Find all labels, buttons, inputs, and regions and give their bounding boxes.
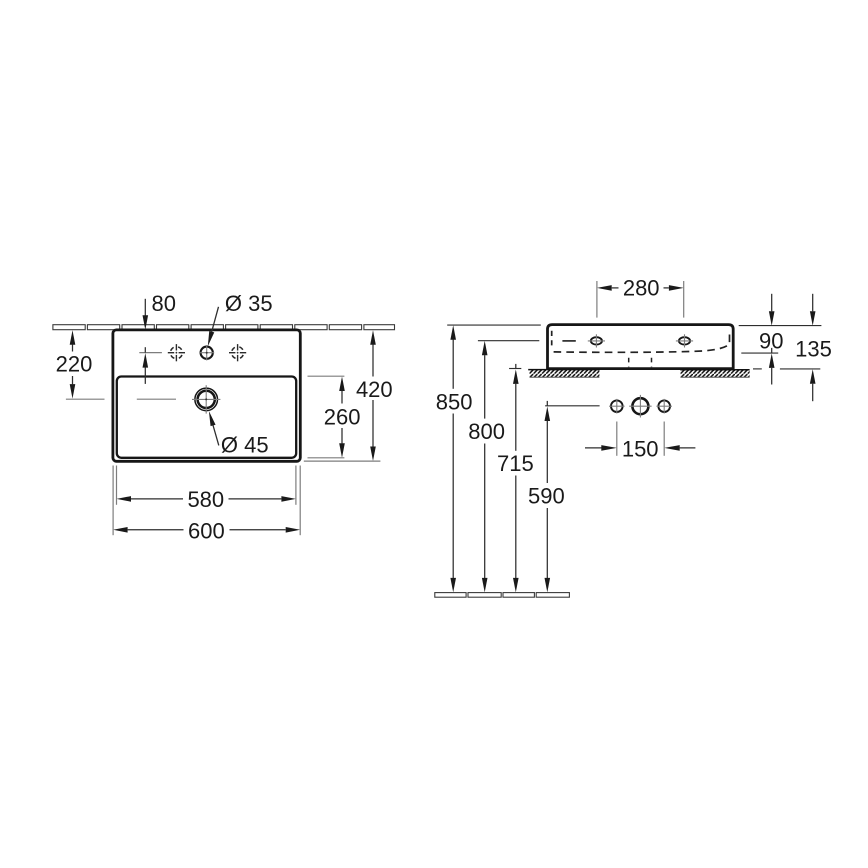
dimension 280 line	[597, 285, 684, 291]
wall hatch left	[528, 370, 599, 378]
fixing hole right	[676, 334, 693, 347]
dimension 600 line	[113, 527, 300, 533]
extension 715 top	[509, 368, 521, 370]
svg-text:280: 280	[623, 276, 660, 301]
dimension 850 label	[436, 389, 473, 414]
svg-text:260: 260	[324, 405, 361, 430]
extension 800 top	[478, 340, 539, 342]
dimension 80 arrows	[143, 299, 149, 384]
svg-text:800: 800	[468, 419, 505, 444]
drain centre line	[137, 398, 176, 400]
dimension 715 label	[497, 451, 534, 476]
dimension 800 line	[482, 341, 488, 593]
basin inner bowl outline	[117, 377, 296, 458]
dimension 590 line	[545, 401, 551, 593]
svg-text:590: 590	[528, 484, 565, 509]
basin side outline	[548, 325, 734, 369]
fixing hole centre tick	[562, 340, 575, 342]
extension 590 top	[545, 405, 600, 407]
dimension 150 line	[585, 445, 695, 451]
dimension 80 label	[152, 291, 176, 316]
tap hole O35	[199, 345, 214, 360]
label O45	[221, 432, 269, 457]
dimension 280 extensions	[597, 281, 684, 318]
optional tap hole mark left	[168, 344, 185, 361]
dimension 420 label	[356, 377, 393, 402]
svg-text:580: 580	[187, 487, 224, 512]
svg-text:715: 715	[497, 451, 534, 476]
svg-text:220: 220	[56, 352, 93, 377]
dimension 280 label	[623, 276, 660, 301]
hidden drain lines	[629, 358, 652, 367]
dimension 150 extensions	[617, 422, 664, 456]
dimension 600 label	[188, 518, 225, 543]
fixing hole left	[588, 334, 605, 347]
supply hole right	[656, 399, 672, 414]
svg-text:Ø 45: Ø 45	[221, 432, 269, 457]
svg-text:420: 420	[356, 377, 393, 402]
dimension 220 line	[70, 330, 76, 398]
dimension 600 extensions	[113, 466, 300, 536]
basin outer outline	[113, 330, 300, 461]
tap hole centre line tick	[139, 352, 162, 354]
dimension 580 extensions	[117, 466, 296, 505]
dimension 260 extension top	[308, 375, 345, 377]
drain hole O45	[192, 385, 220, 413]
dimension 90 line	[769, 294, 775, 385]
dimension 580 label	[187, 487, 224, 512]
dimension 260 label	[324, 405, 361, 430]
dimension 150 label	[622, 436, 659, 461]
dimension 800 label	[468, 419, 505, 444]
label O35	[225, 291, 273, 316]
dimension 420 line	[370, 330, 376, 461]
svg-text:80: 80	[152, 291, 176, 316]
wall hatch right	[680, 370, 749, 377]
dimension 420 extension bottom	[304, 460, 381, 462]
svg-text:90: 90	[759, 328, 783, 353]
dimension 260 line	[339, 377, 345, 458]
dimension 220 extension	[66, 398, 105, 400]
dimension 90 label	[759, 328, 783, 353]
drain pipe hole centre	[629, 395, 651, 418]
extension 850 top	[447, 324, 541, 326]
svg-text:Ø 35: Ø 35	[225, 291, 273, 316]
hidden bowl profile dashed	[552, 331, 730, 353]
svg-text:600: 600	[188, 518, 225, 543]
svg-text:135: 135	[795, 336, 832, 361]
dimension 135 extension	[753, 368, 820, 370]
dimension 220 label	[56, 352, 93, 377]
floor line strip	[435, 593, 570, 598]
wall section strip (front view)	[53, 325, 395, 330]
dimension 590 label	[528, 484, 565, 509]
dimension 580 line	[117, 496, 296, 502]
leader O35	[205, 307, 218, 347]
leader O45	[206, 410, 218, 445]
svg-text:850: 850	[436, 389, 473, 414]
dimension 135 label	[795, 336, 832, 361]
dimension 260 extension bottom	[308, 457, 345, 459]
dimension 135 line	[810, 294, 816, 401]
supply hole left	[609, 399, 625, 414]
optional tap hole mark right	[229, 344, 246, 361]
extension rim right	[739, 325, 822, 327]
svg-text:150: 150	[622, 436, 659, 461]
dimension 90 extension	[741, 352, 778, 354]
dimension 850 line	[450, 325, 456, 592]
dimension 715 line	[513, 364, 519, 593]
